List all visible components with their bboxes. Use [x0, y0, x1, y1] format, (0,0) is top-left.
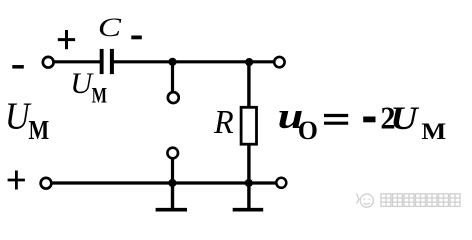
node A junction dot: [168, 58, 176, 66]
terminal top-left input: [43, 57, 54, 68]
label R (resistor): [213, 103, 234, 141]
label plus sign above top wire: [58, 30, 75, 49]
terminal bottom-right output: [276, 178, 286, 188]
wire top horizontal left segment (terminal to capacitor): [48, 60, 101, 63]
watermark logo and text bottom-right: [357, 194, 461, 208]
node B junction dot: [245, 58, 253, 66]
svg-text:C: C: [98, 12, 122, 42]
wire vertical lead from node B to resistor R top: [247, 62, 250, 108]
terminal on stub above node C: [167, 148, 178, 159]
svg-text:M: M: [421, 119, 446, 145]
svg-text:O: O: [298, 115, 318, 145]
wire top horizontal right segment (capacitor to output terminal): [112, 60, 279, 63]
label minus sign left of top-left terminal: [12, 65, 23, 69]
label plus sign bottom-left: [8, 171, 25, 190]
ground at node D: [233, 183, 264, 210]
svg-text:M: M: [29, 116, 50, 146]
svg-text:U: U: [70, 66, 94, 100]
label C (capacitor value): [98, 12, 122, 42]
wire stub from open terminal down to node C: [171, 153, 174, 183]
label U_M source voltage left: [5, 95, 49, 146]
wire stub from node A down to open terminal: [171, 62, 174, 95]
svg-text:R: R: [213, 103, 234, 141]
terminal bottom-left input: [41, 178, 52, 189]
svg-text:U: U: [390, 99, 420, 136]
capacitor C plates: [100, 49, 114, 74]
resistor R body: [241, 107, 256, 144]
svg-text:M: M: [92, 84, 107, 108]
node C junction dot: [168, 179, 176, 187]
wire vertical lead from resistor R bottom to node D: [247, 143, 250, 183]
wire bottom horizontal (input + terminal to output terminal): [46, 181, 281, 184]
label U_M under capacitor: [70, 66, 107, 108]
node D junction dot: [245, 179, 253, 187]
terminal top-right output: [274, 57, 284, 67]
label minus sign right of C: [131, 36, 142, 40]
terminal on stub below node A: [168, 92, 179, 103]
label equation u_O = -2U_M: [278, 96, 447, 145]
ground at node C: [156, 183, 187, 210]
